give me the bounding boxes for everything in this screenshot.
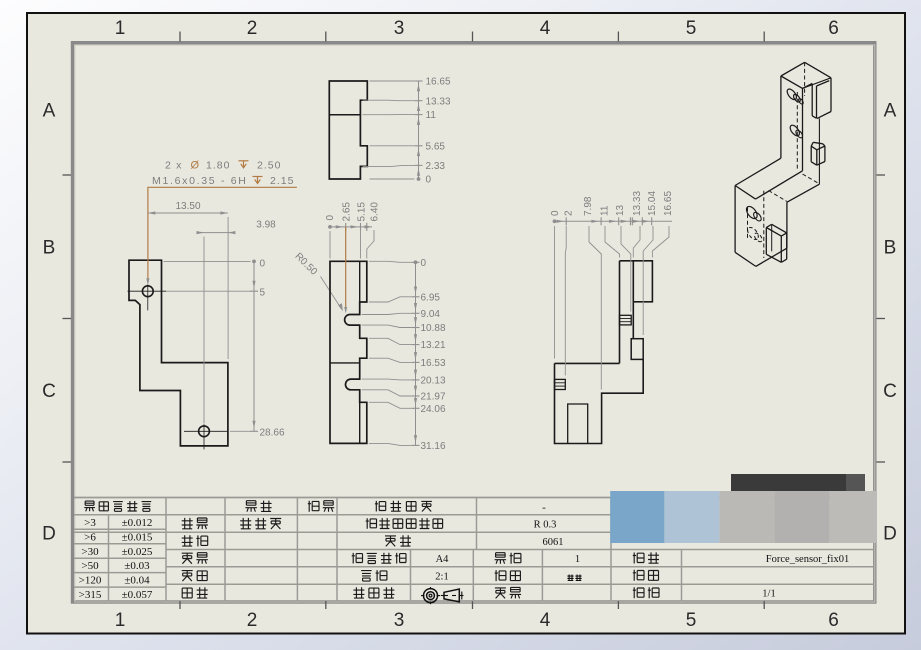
svg-text:4: 4 [540, 610, 551, 631]
svg-text:±0.012: ±0.012 [122, 517, 153, 529]
middle view top ordinate dims [330, 226, 372, 228]
svg-text:-: - [542, 501, 546, 513]
svg-text:16.65: 16.65 [426, 77, 451, 88]
zone ticks [179, 32, 181, 42]
svg-text:0: 0 [426, 175, 432, 186]
svg-text:4: 4 [540, 18, 551, 39]
svg-text:28.66: 28.66 [260, 427, 285, 438]
svg-text:B: B [43, 238, 56, 259]
svg-text:2.65: 2.65 [342, 202, 353, 222]
svg-text:6.40: 6.40 [370, 202, 381, 222]
svg-text:1/1: 1/1 [762, 589, 775, 600]
svg-text:>120: >120 [79, 575, 102, 587]
svg-text:1: 1 [115, 18, 126, 39]
svg-text:5: 5 [686, 18, 697, 39]
svg-text:6061: 6061 [543, 537, 564, 548]
svg-text:5: 5 [686, 610, 697, 631]
svg-text:2 x: 2 x [165, 159, 183, 171]
svg-text:>3: >3 [84, 517, 96, 529]
svg-text:D: D [42, 524, 56, 545]
svg-text:13: 13 [615, 204, 626, 216]
svg-text:6: 6 [828, 610, 839, 631]
svg-text:Force_sensor_fix01: Force_sensor_fix01 [766, 554, 849, 565]
front view upper hole [142, 286, 153, 297]
middle view right ordinate dims [415, 262, 417, 445]
svg-text:A: A [43, 101, 56, 122]
svg-text:M1.6x0.35 - 6H: M1.6x0.35 - 6H [152, 175, 248, 187]
svg-text:±0.015: ±0.015 [122, 531, 153, 543]
svg-text:3: 3 [394, 18, 405, 39]
svg-text:31.16: 31.16 [421, 441, 446, 452]
svg-text:A: A [884, 101, 897, 122]
svg-text:13.33: 13.33 [426, 96, 451, 107]
svg-text:D: D [883, 524, 897, 545]
front view outline [129, 260, 228, 446]
svg-text:B: B [884, 238, 897, 259]
inner frame [73, 43, 875, 602]
svg-text:2: 2 [247, 18, 258, 39]
svg-text:5.15: 5.15 [356, 202, 367, 222]
right view thread groove B [620, 315, 632, 325]
svg-text:2.50: 2.50 [257, 159, 281, 171]
svg-text:A4: A4 [436, 554, 450, 565]
svg-text:0: 0 [260, 259, 266, 270]
ordinate leaders [369, 261, 412, 262]
svg-text:9.04: 9.04 [421, 309, 441, 320]
right view thread groove D [555, 379, 566, 389]
svg-text:1.80: 1.80 [206, 159, 230, 171]
svg-text:11: 11 [426, 110, 437, 121]
top view inner edge [329, 114, 360, 116]
middle view inner edges [330, 362, 360, 364]
svg-text:6.95: 6.95 [421, 292, 441, 303]
censor pixel block [610, 491, 664, 543]
svg-text:6: 6 [828, 18, 839, 39]
dim 13.50 [148, 212, 228, 214]
svg-text:3: 3 [394, 610, 405, 631]
svg-text:>6: >6 [84, 531, 96, 543]
svg-text:16.65: 16.65 [663, 191, 674, 216]
svg-text:7.98: 7.98 [583, 196, 594, 216]
dim 3.98 [197, 232, 235, 234]
svg-text:2.15: 2.15 [270, 175, 294, 187]
front ordinate dims 0/5/28.66 [253, 261, 255, 431]
isometric view [781, 62, 805, 76]
svg-text:>315: >315 [79, 589, 102, 601]
title block lines [74, 497, 874, 499]
front view lower hole [199, 426, 210, 437]
top view ordinate dims [418, 81, 420, 179]
svg-text:0: 0 [325, 215, 336, 221]
svg-text:20.13: 20.13 [421, 376, 446, 387]
svg-text:2: 2 [563, 210, 574, 216]
svg-text:C: C [883, 381, 897, 402]
thread depth leader (orange) [345, 227, 347, 308]
right view lower hole [568, 404, 588, 444]
svg-text:11: 11 [599, 205, 610, 216]
svg-text:24.06: 24.06 [421, 404, 446, 415]
svg-text:3.98: 3.98 [256, 219, 276, 230]
svg-text:1: 1 [575, 554, 580, 565]
svg-text:13.33: 13.33 [632, 191, 643, 216]
top view outline [329, 81, 367, 179]
middle view outline [330, 261, 367, 443]
svg-text:2:1: 2:1 [435, 572, 448, 583]
hole callout leader [148, 187, 297, 282]
projection symbols [424, 589, 438, 603]
svg-text:±0.057: ±0.057 [122, 589, 153, 601]
svg-text:>50: >50 [81, 560, 99, 572]
svg-text:13.21: 13.21 [421, 340, 446, 351]
svg-text:21.97: 21.97 [421, 392, 446, 403]
censor dark strip [731, 474, 846, 491]
svg-text:13.50: 13.50 [175, 201, 200, 212]
svg-text:2: 2 [247, 610, 258, 631]
right view outline [555, 261, 653, 444]
svg-text:>30: >30 [81, 546, 99, 558]
svg-text:1: 1 [115, 610, 126, 631]
svg-text:5: 5 [260, 288, 266, 299]
svg-text:5.65: 5.65 [426, 141, 446, 152]
svg-text:16.53: 16.53 [421, 358, 446, 369]
unit glyphs [567, 575, 581, 581]
svg-text:±0.04: ±0.04 [124, 575, 150, 587]
svg-text:C: C [42, 381, 56, 402]
svg-text:0: 0 [421, 258, 427, 269]
right view top ordinate dims [555, 220, 673, 222]
right view tab C [631, 339, 643, 360]
svg-text:2.33: 2.33 [426, 161, 446, 172]
svg-text:±0.025: ±0.025 [122, 546, 153, 558]
svg-text:0: 0 [550, 210, 561, 216]
svg-text:±0.03: ±0.03 [124, 560, 150, 572]
svg-text:Ø: Ø [191, 159, 200, 171]
svg-text:15.04: 15.04 [647, 191, 658, 216]
svg-text:R 0.3: R 0.3 [534, 520, 557, 531]
title block CJK labels [84, 501, 151, 511]
svg-text:10.88: 10.88 [421, 323, 446, 334]
